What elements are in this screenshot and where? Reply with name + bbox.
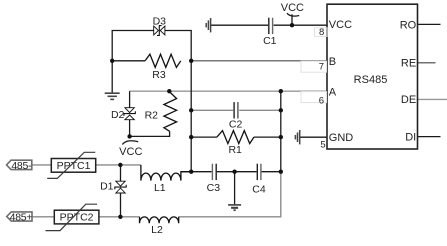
wire pin RE stub xyxy=(418,62,436,64)
diode D3 (bidirectional TVS, horizontal) xyxy=(154,26,165,36)
wire GND row pin 5 xyxy=(300,136,327,138)
ground (rotated, top row left) xyxy=(206,18,210,32)
svg-text:D1: D1 xyxy=(100,180,114,192)
svg-text:C1: C1 xyxy=(263,35,277,47)
wire net A row to pin 6 xyxy=(130,90,327,92)
wire D2 bottom lead xyxy=(129,120,131,137)
power port VCC (top) xyxy=(287,13,299,16)
wire R3 left lead xyxy=(112,60,145,62)
wire L2 right to vertical riser xyxy=(179,172,281,217)
terminal flag 485- xyxy=(7,160,33,172)
ground (below C3/C4 junction) xyxy=(228,205,241,210)
wire pin DI stub xyxy=(418,136,441,138)
svg-text:B: B xyxy=(329,56,336,68)
wire 485- flag to PPTC1 xyxy=(32,164,52,166)
resistor R1 xyxy=(217,131,254,144)
svg-text:GND: GND xyxy=(329,132,354,144)
wire D1 top lead xyxy=(120,165,122,181)
svg-text:D3: D3 xyxy=(153,16,167,28)
wire net B row to pin 7 xyxy=(191,60,327,62)
resistor R2 (vertical) xyxy=(164,92,177,132)
fuse PPTC1 xyxy=(47,152,95,178)
wire vertical A tee down xyxy=(280,91,282,172)
svg-text:L2: L2 xyxy=(151,224,163,236)
svg-text:C4: C4 xyxy=(252,183,266,195)
svg-text:8: 8 xyxy=(319,27,324,38)
svg-text:DI: DI xyxy=(405,131,416,143)
svg-text:R3: R3 xyxy=(152,69,166,81)
capacitor C1 xyxy=(269,18,273,34)
op-amp U1 : RS485 transceiver box xyxy=(327,4,418,149)
wire C1 to pin 8 xyxy=(274,24,327,26)
power port VCC (below D2) xyxy=(122,141,138,145)
svg-text:6: 6 xyxy=(319,96,324,107)
svg-text:DE: DE xyxy=(401,94,416,106)
svg-text:VCC: VCC xyxy=(281,2,304,14)
fuse PPTC2 xyxy=(46,204,99,230)
wire C2 row right xyxy=(239,109,281,111)
wire PPTC1 to L1 corner xyxy=(96,164,141,166)
svg-text:485-: 485- xyxy=(11,160,32,172)
capacitor C4 xyxy=(257,164,261,180)
resistor R3 xyxy=(145,54,181,67)
svg-text:R2: R2 xyxy=(145,109,159,121)
wire pin DE stub xyxy=(418,98,447,100)
inductor L1 xyxy=(141,165,191,181)
capacitor C2 xyxy=(234,102,238,118)
wire R2 bottom to VCC junction xyxy=(130,131,170,136)
diode D2 (bidirectional TVS, vertical) xyxy=(124,108,135,120)
wire VCC stem top xyxy=(291,14,293,25)
svg-text:RS485: RS485 xyxy=(354,74,388,86)
wire C3 row xyxy=(181,171,212,173)
svg-text:R1: R1 xyxy=(228,144,242,156)
svg-text:485+: 485+ xyxy=(10,211,33,223)
svg-text:RO: RO xyxy=(400,19,417,31)
svg-text:VCC: VCC xyxy=(119,146,142,158)
svg-text:C3: C3 xyxy=(207,182,221,194)
wire D1 bottom lead xyxy=(120,193,122,217)
wire pin RO stub xyxy=(418,23,441,25)
wire 485+ flag to PPTC2 xyxy=(32,216,54,218)
svg-text:L1: L1 xyxy=(154,182,166,194)
wire R1 right lead xyxy=(254,136,281,138)
wire C2 row left xyxy=(191,109,233,111)
wire D3 loop right / long vertical xyxy=(165,31,192,172)
svg-text:D2: D2 xyxy=(111,109,125,121)
wire R1 left lead xyxy=(191,136,217,138)
wire D3 loop left xyxy=(112,31,154,93)
svg-text:VCC: VCC xyxy=(329,19,352,31)
svg-text:7: 7 xyxy=(319,62,324,73)
capacitor C3 xyxy=(212,164,216,180)
terminal flag 485+ xyxy=(7,211,33,223)
pin number boxes (faint) xyxy=(301,28,327,103)
inductor L2 xyxy=(140,217,179,223)
svg-text:C2: C2 xyxy=(229,119,243,131)
wire ground stem mid xyxy=(234,172,236,205)
wire D2 top lead xyxy=(129,91,131,108)
ground (left, below D3 loop) xyxy=(105,93,120,99)
wire top row ground to C1 xyxy=(211,24,269,26)
svg-text:5: 5 xyxy=(320,140,325,151)
svg-text:RE: RE xyxy=(401,58,416,70)
svg-text:PPTC1: PPTC1 xyxy=(57,160,91,172)
diode D1 (bidirectional TVS, vertical) xyxy=(115,181,126,193)
ground (rotated, at GND pin 5) xyxy=(295,130,299,144)
wire PPTC2 to L2 xyxy=(99,216,140,218)
svg-text:A: A xyxy=(329,86,337,98)
